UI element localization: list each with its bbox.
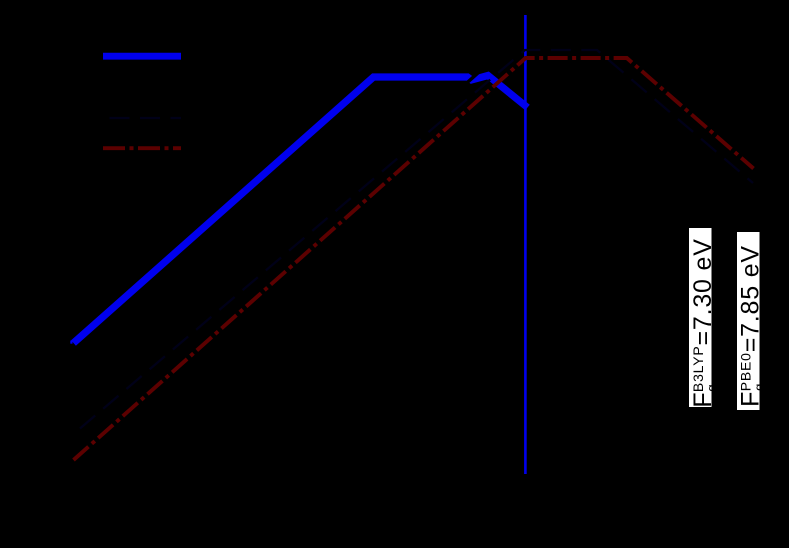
legend line B3LYP (blue solid) — [103, 53, 181, 60]
legend line PBE0 (dark red dash-dot) — [103, 146, 181, 150]
B3LYP curve (thick blue) — [74, 76, 528, 344]
black crossing line (invisible on bg, cuts blue plateau) — [455, 60, 493, 94]
legend line navy dashed — [103, 117, 181, 119]
label box F PBE0 — [737, 232, 760, 410]
PBE0 curve (dark red dash-dot) — [74, 58, 754, 460]
navy dashed curve — [74, 50, 754, 434]
vertical marker line (blue) — [524, 15, 527, 474]
blue curve start dot — [70, 341, 72, 344]
label box F B3LYP — [689, 228, 712, 407]
